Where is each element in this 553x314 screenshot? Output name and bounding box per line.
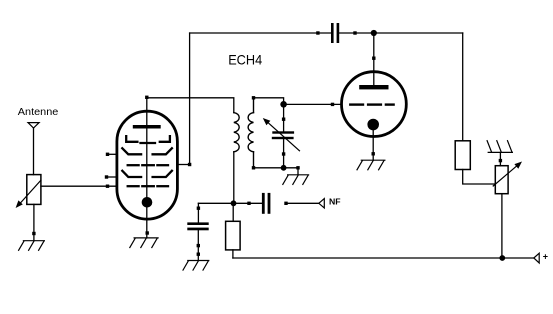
cathode dot V1: [142, 197, 153, 208]
tube V1 ECH4 envelope: [117, 111, 177, 219]
grid row 3 V1: [128, 164, 168, 166]
cathode lead V2: [372, 128, 375, 160]
wire R2 to R3: [463, 170, 496, 185]
terminal plus: [534, 252, 548, 263]
grid row 4 stub: [105, 175, 116, 178]
node supply junction: [499, 255, 505, 261]
cathode line V1: [146, 128, 148, 238]
anode bar V1: [133, 125, 161, 129]
capacitor C2 lead: [197, 203, 200, 222]
anode lead V2: [372, 33, 375, 85]
anode bar V2: [359, 85, 388, 89]
antenna symbol: [28, 123, 39, 128]
headphones to R3 stub: [499, 152, 502, 165]
variable resistor R3: [493, 162, 522, 194]
wire R3 to supply rail: [501, 194, 503, 258]
resistor R1: [226, 203, 241, 258]
riser wire to top rail: [189, 33, 191, 165]
svg-text:ECH4: ECH4: [228, 52, 262, 68]
svg-text:+: +: [543, 252, 548, 262]
capacitor C3 coupling NF: [247, 193, 318, 214]
svg-text:Antenne: Antenne: [18, 106, 59, 118]
wire junction to V2 grid: [284, 103, 342, 106]
right riser wire: [462, 33, 464, 141]
coil L2 top pin: [252, 96, 284, 104]
headphones symbol: [487, 141, 512, 153]
bottom supply rail wire: [233, 257, 534, 259]
wire L1 to node A: [233, 152, 235, 204]
resistor R2: [455, 141, 470, 170]
cathode dot V2: [367, 119, 379, 131]
capacitor C2: [187, 222, 208, 260]
node A junction: [231, 200, 237, 206]
grid row 2 stub: [106, 153, 116, 156]
ground (antenna): [19, 241, 45, 251]
wire L2 bottom to ground: [254, 166, 300, 175]
ground (C2): [183, 261, 209, 271]
terminal NF: [319, 197, 341, 208]
grid row 4 V1: [122, 171, 172, 177]
cathode ground pin V1: [146, 231, 149, 234]
ground (V1 cathode): [130, 238, 158, 248]
svg-text:NF: NF: [329, 197, 341, 207]
grid row 1 V1: [126, 136, 170, 143]
wire V1 anode to coil L1: [147, 98, 234, 113]
node tank bottom: [281, 165, 287, 171]
wire antenna to potentiometer: [33, 128, 35, 175]
tube V2 envelope: [342, 72, 407, 137]
top rail wire right: [339, 32, 463, 34]
grid row 2 V1: [122, 148, 172, 154]
ground (tank circuit): [283, 175, 309, 185]
grid V2: [350, 103, 393, 105]
node grid junction: [280, 101, 287, 108]
grid row 5 V1: [128, 185, 168, 187]
wire node A horizontal: [198, 202, 262, 204]
wire potentiometer to grid 1 of V1: [41, 185, 117, 188]
potentiometer P1: [16, 175, 41, 208]
wire potentiometer to ground: [32, 204, 35, 240]
capacitor C4: [316, 23, 356, 43]
coil L2: [248, 99, 255, 170]
ground (V2 cathode): [357, 160, 385, 170]
anode lead V1: [145, 96, 148, 126]
wire hexode anode to riser: [178, 163, 192, 166]
coil L1: [234, 113, 239, 152]
top rail wire left: [190, 32, 331, 34]
variable capacitor C1: [263, 104, 300, 168]
node top junction: [371, 30, 377, 36]
